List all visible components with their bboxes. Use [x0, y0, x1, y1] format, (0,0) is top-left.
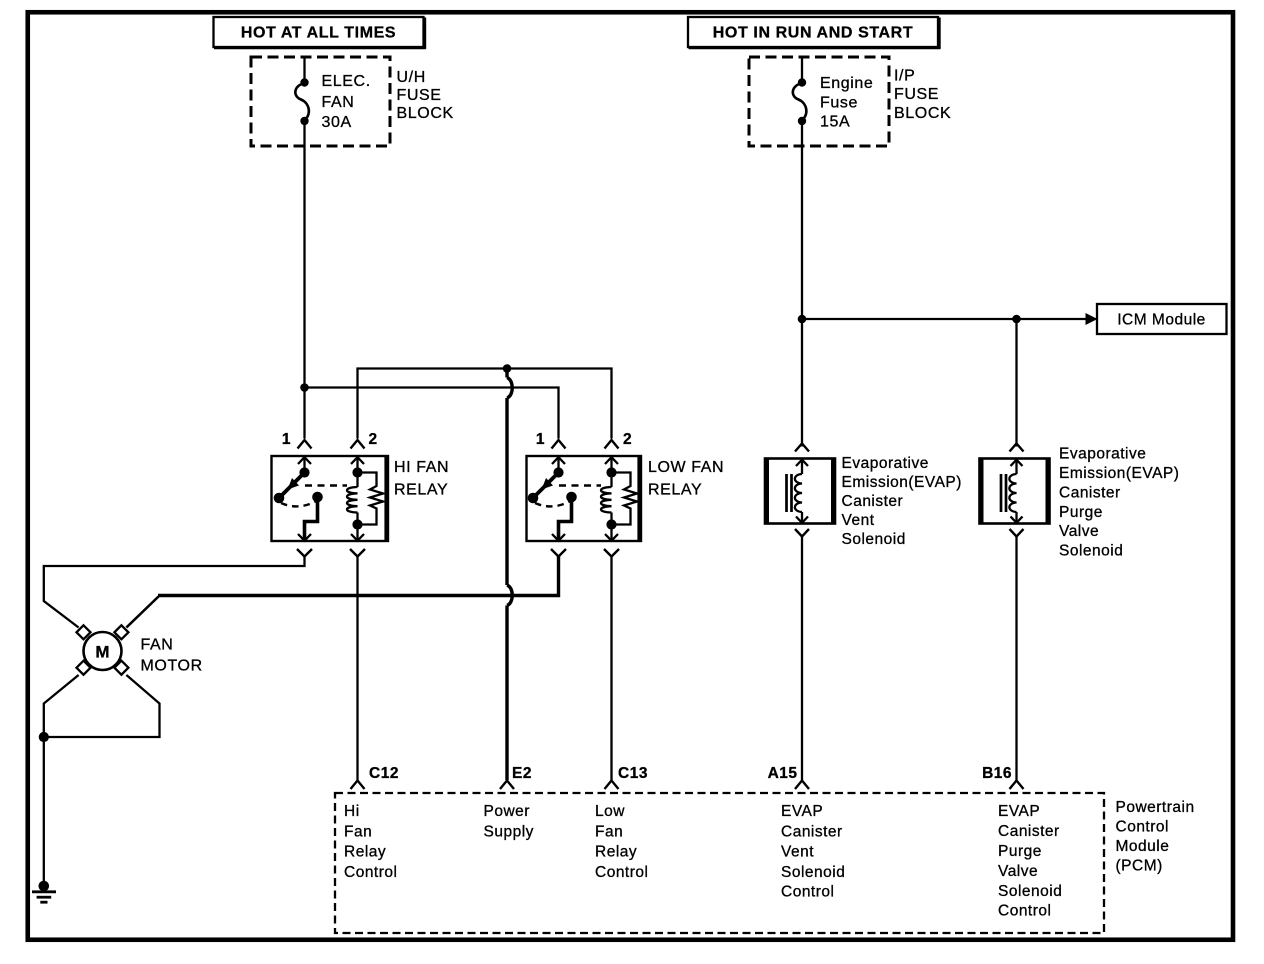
svg-text:HOT AT ALL TIMES: HOT AT ALL TIMES — [241, 25, 396, 42]
switch blade — [533, 473, 559, 499]
svg-text:I/P: I/P — [894, 68, 915, 85]
wire: motor SW terminal to ground node — [44, 675, 79, 737]
svg-text:Control: Control — [1116, 819, 1169, 836]
motor body — [84, 632, 122, 670]
junction: coil feed rail / E2 power supply — [503, 364, 512, 373]
svg-text:Evaporative: Evaporative — [1059, 446, 1146, 463]
arrow into ICM Module — [1086, 313, 1098, 325]
svg-text:C13: C13 — [618, 765, 648, 782]
switch output wire — [559, 497, 572, 541]
connector caret below vent solenoid — [795, 529, 809, 537]
svg-text:Solenoid: Solenoid — [1059, 543, 1123, 560]
connector caret at LOW FAN RELAY pin 2 — [605, 440, 619, 449]
motor terminal NW — [77, 625, 91, 639]
svg-text:B16: B16 — [982, 765, 1012, 782]
svg-text:HI FAN: HI FAN — [394, 459, 449, 476]
solenoid box — [980, 459, 1050, 524]
wire: LOW relay coil to PCM C13 — [610, 557, 612, 781]
svg-text:ICM Module: ICM Module — [1117, 312, 1206, 329]
svg-text:1: 1 — [282, 431, 291, 448]
net label HOT AT ALL TIMES — [214, 17, 426, 49]
label Powertrain Control Module (PCM) — [1116, 799, 1195, 875]
connector caret below HI relay switch — [297, 549, 312, 557]
motor FAN MOTOR — [77, 625, 203, 674]
exit arrow — [1011, 517, 1023, 523]
svg-text:MOTOR: MOTOR — [141, 658, 203, 675]
svg-text:Canister: Canister — [998, 823, 1060, 840]
relay box — [272, 456, 389, 541]
connector caret above purge solenoid — [1010, 444, 1024, 452]
wire: Engine fuse output down to EVAP vent solenoid — [801, 121, 803, 447]
svg-text:Fan: Fan — [595, 823, 623, 840]
svg-text:RELAY: RELAY — [648, 482, 702, 499]
svg-text:Vent: Vent — [781, 844, 814, 861]
solenoid coil — [1009, 474, 1016, 512]
solenoid coil — [795, 474, 802, 512]
pin 2 entry arrow — [351, 457, 364, 464]
solenoid box — [765, 459, 835, 524]
svg-text:Low: Low — [595, 803, 625, 820]
svg-text:U/H: U/H — [397, 69, 426, 86]
svg-text:Canister: Canister — [781, 823, 843, 840]
wire: fuse feed to LOW FAN RELAY pin 1 — [305, 388, 559, 439]
switch pivot dot — [274, 493, 285, 504]
svg-text:Canister: Canister — [842, 493, 904, 510]
svg-text:Valve: Valve — [998, 863, 1038, 880]
switch-coil linkage (dashed) — [559, 484, 601, 486]
coil top dot — [606, 467, 616, 477]
svg-text:15A: 15A — [820, 114, 850, 131]
switch exit arrow — [552, 534, 565, 541]
solenoid EVAP canister vent — [765, 444, 962, 549]
pin E2 — [500, 765, 532, 789]
svg-text:Control: Control — [344, 864, 397, 881]
connector caret at HI FAN RELAY pin 2 — [351, 440, 365, 449]
solenoid core bars — [1000, 474, 1003, 512]
junction: motor ground node — [39, 732, 49, 742]
relay LOW FAN RELAY — [527, 431, 725, 541]
svg-text:Power: Power — [484, 803, 530, 820]
label Low Fan Relay Control — [595, 803, 648, 881]
wire: ELEC FAN fuse output down to HI FAN RELAY pin 1 — [303, 121, 305, 439]
module PCM (dashed box) — [335, 793, 1104, 933]
solenoid core bars — [785, 474, 788, 512]
svg-text:BLOCK: BLOCK — [397, 105, 454, 122]
svg-text:Relay: Relay — [344, 844, 386, 861]
svg-text:Canister: Canister — [1059, 485, 1121, 502]
svg-text:Control: Control — [998, 903, 1051, 920]
svg-text:Hi: Hi — [344, 803, 360, 820]
solenoid EVAP canister purge valve — [980, 444, 1180, 560]
svg-text:ELEC.: ELEC. — [322, 73, 371, 90]
svg-text:Purge: Purge — [1059, 504, 1103, 521]
svg-text:2: 2 — [623, 431, 632, 448]
connector caret below purge solenoid — [1010, 529, 1024, 537]
relay coil — [610, 473, 612, 488]
svg-text:FUSE: FUSE — [894, 86, 939, 103]
svg-text:HOT IN RUN AND START: HOT IN RUN AND START — [713, 25, 913, 42]
ICM Module box — [1097, 304, 1227, 334]
label EVAP Canister vent Solenoid Control — [781, 803, 845, 900]
svg-text:Solenoid: Solenoid — [998, 883, 1062, 900]
label I/P FUSE BLOCK — [894, 68, 951, 123]
svg-text:Engine: Engine — [820, 75, 873, 92]
svg-text:FUSE: FUSE — [397, 87, 442, 104]
wire: ground drop — [43, 737, 45, 884]
svg-text:Relay: Relay — [595, 844, 637, 861]
pin 1 entry arrow — [298, 457, 311, 464]
junction: fuse feed split — [300, 383, 309, 392]
fuse block U/H FUSE BLOCK (dashed box) — [251, 57, 390, 146]
svg-text:A15: A15 — [768, 765, 798, 782]
coil exit arrow — [351, 534, 364, 541]
svg-text:30A: 30A — [322, 114, 352, 131]
exit arrow — [796, 517, 808, 523]
switch-coil linkage (dashed) — [305, 484, 347, 486]
svg-text:Solenoid: Solenoid — [781, 864, 845, 881]
switch stationary contact dot — [566, 492, 577, 503]
value label ELEC. FAN 30A — [322, 73, 371, 131]
junction: ICM wire / purge valve branch — [1012, 315, 1021, 324]
connector caret at LOW FAN RELAY pin 1 — [552, 440, 566, 449]
wire: HI relay coil to PCM C12 — [356, 557, 358, 781]
pin A15 — [768, 765, 809, 789]
entry arrow — [796, 460, 808, 466]
coil bottom dot — [352, 519, 362, 529]
fuse ELEC. FAN 30A — [295, 57, 309, 125]
coil top dot — [352, 467, 362, 477]
relay box — [527, 456, 642, 541]
svg-text:EVAP: EVAP — [781, 803, 823, 820]
connector caret below HI relay coil — [350, 549, 365, 557]
ground — [32, 881, 56, 903]
svg-text:Module: Module — [1116, 838, 1170, 855]
wire: LOW relay switch output to fan motor (heavy) — [158, 557, 559, 596]
svg-text:2: 2 — [369, 431, 378, 448]
svg-text:M: M — [95, 643, 109, 662]
fuse Engine Fuse 15A — [793, 57, 807, 125]
switch exit arrow — [298, 534, 311, 541]
svg-text:(PCM): (PCM) — [1116, 858, 1163, 875]
pin 1 entry arrow — [552, 457, 565, 464]
switch stationary contact dot — [312, 492, 323, 503]
wire: junction down to EVAP purge valve solenoid — [1015, 319, 1017, 447]
entry arrow — [1011, 460, 1023, 466]
wire: vent solenoid to PCM A15 — [801, 537, 803, 781]
pin B16 — [982, 765, 1023, 789]
svg-text:C12: C12 — [369, 765, 399, 782]
svg-text:Vent: Vent — [842, 512, 875, 529]
label Hi Fan Relay Control — [344, 803, 397, 881]
svg-text:Purge: Purge — [998, 843, 1042, 860]
coil bottom dot — [606, 519, 616, 529]
svg-text:FAN: FAN — [141, 637, 174, 654]
switch common node dot — [553, 467, 563, 477]
svg-text:Evaporative: Evaporative — [842, 455, 929, 472]
svg-text:EVAP: EVAP — [998, 803, 1040, 820]
wire: HI relay switch output to fan motor — [44, 557, 305, 628]
switch common node dot — [299, 467, 309, 477]
coil exit arrow — [605, 534, 618, 541]
wire: PCM E2 power supply (heavy, with crossover hops) — [507, 369, 512, 781]
svg-text:Supply: Supply — [484, 823, 534, 840]
svg-text:Control: Control — [595, 864, 648, 881]
svg-text:BLOCK: BLOCK — [894, 105, 951, 122]
wire: motor SE terminal to ground node — [44, 675, 160, 737]
switch throw arc (dashed) — [281, 502, 316, 507]
pin C12 — [351, 765, 399, 789]
svg-text:Control: Control — [781, 883, 834, 900]
motor terminal SW — [77, 661, 91, 675]
value label Engine Fuse 15A — [820, 75, 873, 131]
connector caret below LOW relay coil — [604, 549, 619, 557]
relay HI FAN RELAY — [272, 431, 450, 541]
svg-text:Fan: Fan — [344, 823, 372, 840]
svg-text:RELAY: RELAY — [394, 482, 448, 499]
svg-text:Valve: Valve — [1059, 523, 1099, 540]
svg-text:Solenoid: Solenoid — [842, 531, 906, 548]
pin 2 entry arrow — [605, 457, 618, 464]
motor terminal SE — [114, 661, 128, 675]
wire: purge solenoid to PCM B16 — [1015, 537, 1017, 781]
svg-text:Fuse: Fuse — [820, 95, 858, 112]
svg-text:1: 1 — [536, 431, 545, 448]
switch output wire — [305, 497, 318, 541]
svg-text:Emission(EVAP): Emission(EVAP) — [842, 474, 962, 491]
svg-text:Emission(EVAP): Emission(EVAP) — [1059, 465, 1179, 482]
label EVAP Canister Purge Valve Solenoid Control — [998, 803, 1062, 920]
switch throw arc (dashed) — [535, 502, 570, 507]
wire: relay coil feed rail (HI pin 2 to LOW pin 2) — [358, 369, 612, 439]
connector caret below LOW relay switch — [551, 549, 566, 557]
svg-text:E2: E2 — [512, 765, 532, 782]
switch pivot dot — [528, 493, 539, 504]
svg-text:FAN: FAN — [322, 94, 355, 111]
net label HOT IN RUN AND START — [688, 17, 940, 49]
svg-text:Powertrain: Powertrain — [1116, 799, 1195, 816]
connector caret above vent solenoid — [795, 444, 809, 452]
svg-text:LOW FAN: LOW FAN — [648, 459, 724, 476]
pin C13 — [605, 765, 648, 789]
junction: engine fuse node to ICM — [798, 315, 807, 324]
coil parallel resistor — [612, 473, 638, 525]
coil parallel resistor — [358, 473, 384, 525]
fuse block I/P FUSE BLOCK (dashed box) — [749, 57, 889, 146]
switch blade — [279, 473, 305, 499]
motor terminal NE — [114, 625, 128, 639]
relay coil — [356, 473, 358, 488]
connector caret at HI FAN RELAY pin 1 — [298, 440, 312, 449]
wire: node to ICM Module — [802, 318, 1087, 320]
label Power Supply — [484, 803, 534, 840]
label U/H FUSE BLOCK — [397, 69, 454, 122]
